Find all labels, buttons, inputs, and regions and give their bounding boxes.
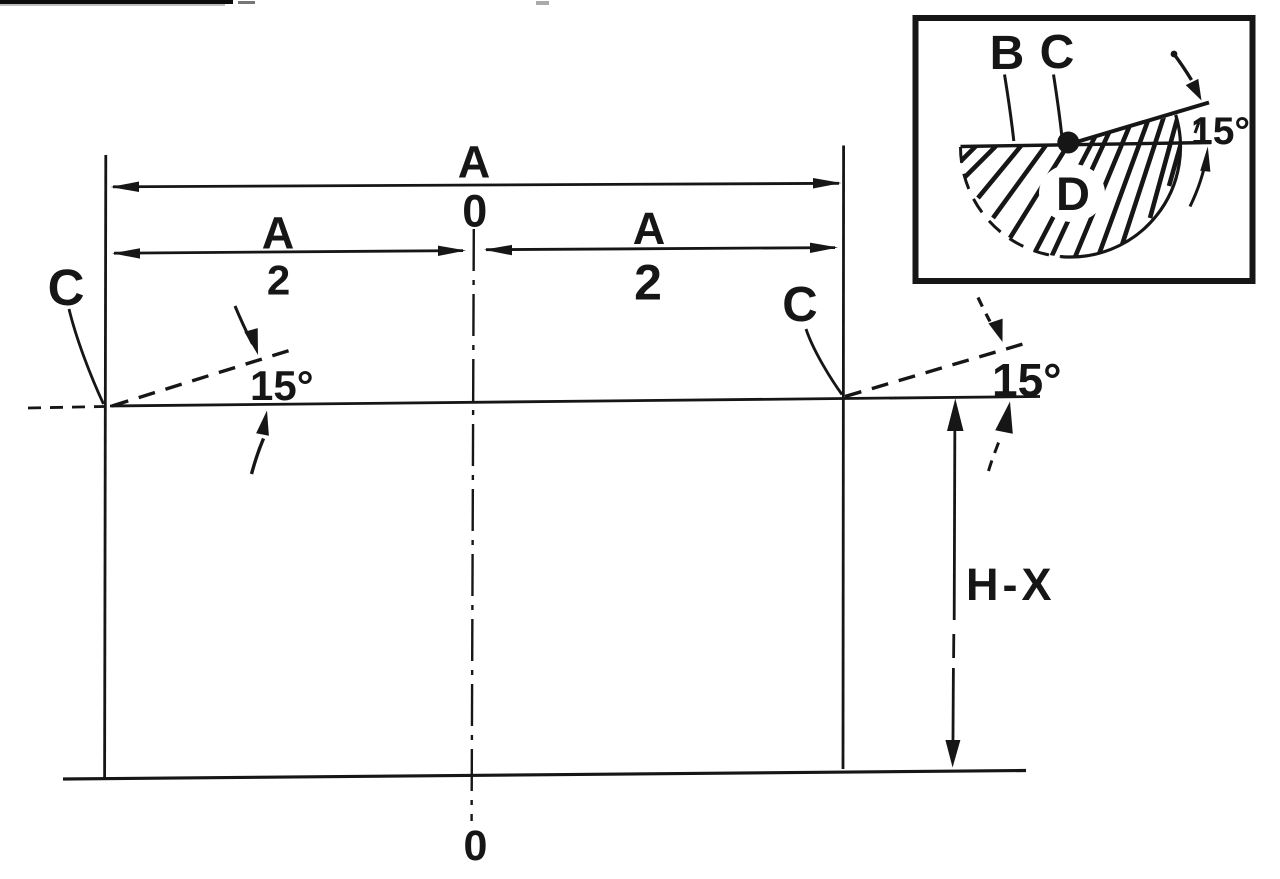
dimension H-X xyxy=(945,399,963,768)
svg-text:15°: 15° xyxy=(250,362,314,409)
dimension line A/2 left xyxy=(112,246,466,259)
curved arrow left bottom xyxy=(252,411,269,475)
curved arrow right top (dashed) xyxy=(978,298,1003,343)
main horizontal line xyxy=(110,397,1040,407)
svg-text:2: 2 xyxy=(634,255,662,311)
dimension line A/2 right xyxy=(484,243,838,256)
dimension line A xyxy=(111,178,842,192)
svg-text:B: B xyxy=(990,27,1025,80)
svg-text:A: A xyxy=(633,203,666,254)
curved arrow left top xyxy=(235,306,258,355)
white halo for D xyxy=(1039,164,1105,222)
svg-text:D: D xyxy=(1056,167,1090,220)
hatched region (semicircle D + wedge) xyxy=(956,101,1193,262)
svg-text:A: A xyxy=(458,137,491,188)
svg-text:2: 2 xyxy=(267,257,290,304)
curved arrow inset top xyxy=(1171,51,1202,101)
left vertical line xyxy=(105,155,106,778)
leader line C right xyxy=(806,329,842,395)
inset horizontal line B xyxy=(961,143,1212,147)
leader line C inset xyxy=(1054,75,1062,137)
semicircle arc dashed part xyxy=(961,147,1061,257)
svg-text:A: A xyxy=(262,208,295,259)
svg-text:C: C xyxy=(1040,26,1075,79)
svg-text:0: 0 xyxy=(462,186,487,237)
center line 0-0 (dash-dot) xyxy=(472,229,474,821)
dashed 15deg line right xyxy=(845,343,1028,397)
inset angled 15deg line xyxy=(1068,103,1209,145)
svg-text:15°: 15° xyxy=(992,354,1062,406)
scan artifact: top black bar xyxy=(0,0,549,6)
bottom horizontal line xyxy=(63,771,1026,780)
curved arc arrow inset bottom xyxy=(1190,122,1210,207)
point C dot xyxy=(1057,132,1079,154)
dashed extension left xyxy=(28,407,104,409)
svg-text:C: C xyxy=(782,278,817,332)
curved arrow right bottom (dashed) xyxy=(989,402,1013,472)
svg-text:15°: 15° xyxy=(1191,110,1250,153)
right vertical line xyxy=(842,146,845,770)
dashed 15deg line left xyxy=(112,349,294,406)
svg-text:H-X: H-X xyxy=(966,559,1056,610)
semicircle arc solid part xyxy=(1061,115,1181,257)
inset detail box xyxy=(916,18,1253,281)
svg-text:0: 0 xyxy=(463,822,487,870)
leader line C left xyxy=(69,309,104,404)
svg-text:C: C xyxy=(48,259,85,316)
leader line B xyxy=(1005,75,1014,142)
